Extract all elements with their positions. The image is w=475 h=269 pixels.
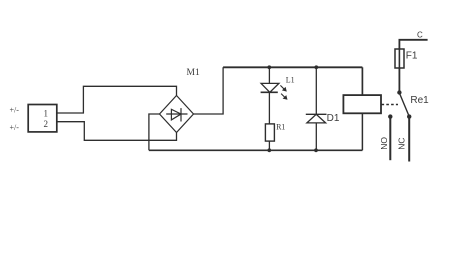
wire top rail to relay coil bbox=[361, 67, 363, 95]
wire resistor to bottom rail bbox=[268, 141, 270, 150]
svg-text:R1: R1 bbox=[276, 123, 285, 132]
resistor R1 bbox=[265, 124, 274, 141]
svg-text:+/-: +/- bbox=[10, 106, 20, 115]
pivot junction dot bbox=[397, 90, 401, 94]
svg-text:Re1: Re1 bbox=[410, 95, 429, 106]
junction dot top rail / LED branch bbox=[267, 65, 271, 69]
NO contact dot bbox=[388, 114, 392, 118]
NC contact dot bbox=[407, 114, 411, 118]
svg-text:2: 2 bbox=[44, 119, 49, 129]
wire bridge left corner to bottom rail bbox=[149, 114, 160, 150]
LED L1 bbox=[261, 83, 288, 99]
dashed actuator link bbox=[382, 104, 399, 106]
svg-text:D1: D1 bbox=[327, 113, 340, 124]
relay coil Re1 bbox=[343, 95, 381, 113]
junction dot top rail / D1 branch bbox=[314, 65, 318, 69]
svg-text:C: C bbox=[417, 31, 423, 40]
bottom rail bbox=[149, 149, 363, 151]
bridge rectifier M1 bbox=[160, 96, 194, 133]
wire top rail to D1 bbox=[315, 67, 317, 114]
svg-text:L1: L1 bbox=[286, 76, 295, 85]
junction dot bottom rail / D1 bbox=[314, 148, 318, 152]
wire relay coil to bottom rail bbox=[361, 113, 363, 150]
wire fuse to pivot bbox=[398, 68, 400, 93]
wire bridge right corner to top rail bbox=[194, 67, 224, 114]
NC contact wire bbox=[408, 117, 410, 162]
wire pin2 to bridge bottom bbox=[57, 122, 177, 141]
input connector X1 bbox=[28, 105, 57, 132]
top rail bbox=[223, 66, 362, 68]
diode D1 bbox=[306, 114, 327, 123]
fuse F1 bbox=[395, 49, 404, 68]
svg-text:NC: NC bbox=[396, 138, 406, 150]
switch arm bbox=[399, 93, 408, 116]
wire C terminal to fuse bbox=[399, 40, 427, 49]
svg-text:1: 1 bbox=[44, 109, 49, 119]
NO contact wire bbox=[389, 117, 391, 161]
wire LED to resistor bbox=[268, 92, 270, 124]
wire D1 to bottom rail bbox=[315, 123, 317, 150]
svg-text:F1: F1 bbox=[406, 50, 418, 61]
svg-text:NO: NO bbox=[379, 137, 389, 150]
svg-text:M1: M1 bbox=[187, 68, 200, 78]
junction dot bottom rail / resistor bbox=[267, 148, 271, 152]
wire top rail to LED bbox=[268, 67, 270, 83]
svg-text:+/-: +/- bbox=[10, 123, 20, 132]
wire pin1 to bridge top bbox=[57, 86, 177, 113]
